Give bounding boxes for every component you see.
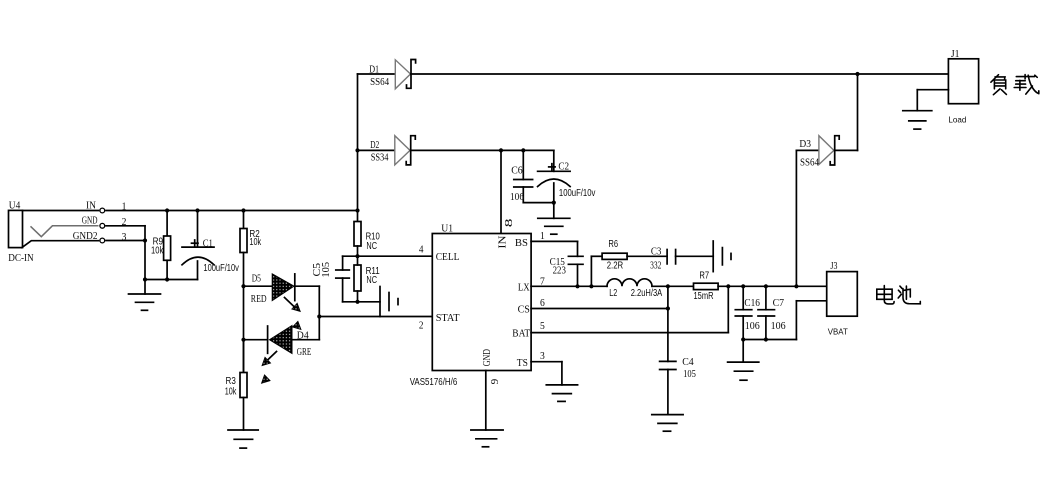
wire D2 cathode net: [411, 149, 554, 151]
node D2 branch: [355, 148, 359, 152]
wire L2 to R7: [652, 285, 694, 287]
resistor R2: [240, 211, 262, 287]
svg-text:C4: C4: [682, 356, 694, 368]
svg-text:GND: GND: [82, 214, 98, 226]
capacitor C1 100uF/10v: [182, 211, 239, 280]
node C6 riser: [521, 148, 525, 152]
diode D3 SS64: [796, 136, 857, 169]
wire TS pin to ground: [531, 362, 562, 385]
wire CS pin to C4 node: [531, 286, 668, 361]
diode D1 SS64: [358, 60, 416, 89]
svg-text:IN: IN: [497, 236, 509, 249]
svg-text:3: 3: [540, 350, 545, 362]
node C2 bottom: [552, 201, 556, 205]
wire C6/C2 bottom: [523, 202, 554, 204]
svg-text:105: 105: [320, 262, 332, 278]
svg-text:R3: R3: [226, 376, 237, 387]
svg-text:STAT: STAT: [436, 312, 460, 324]
svg-text:LX: LX: [518, 282, 530, 294]
D4 light arrows: [262, 352, 277, 384]
svg-text:L2: L2: [609, 288, 617, 299]
wire R7 to J3: [718, 285, 827, 287]
node IN/R9: [165, 208, 169, 212]
svg-text:J1: J1: [951, 48, 960, 60]
ground under C4: [652, 415, 683, 432]
svg-text:C6: C6: [511, 165, 523, 177]
resistor R6 2.2R: [591, 239, 667, 286]
svg-text:10k: 10k: [225, 386, 237, 397]
capacitor C5 105: [311, 256, 350, 302]
capacitor C4 105: [660, 356, 697, 414]
svg-text:100uF/10v: 100uF/10v: [559, 188, 596, 199]
svg-text:NC: NC: [366, 275, 377, 286]
node gnd bus R9: [165, 277, 169, 281]
svg-text:C3: C3: [651, 246, 662, 258]
wire GND net pin2 to corner: [106, 226, 145, 241]
wire BAT pin to R7 output: [531, 286, 728, 332]
ground rotated at R11 net: [380, 287, 398, 317]
svg-text:D5: D5: [252, 273, 262, 285]
wire GND net pin3: [106, 241, 145, 280]
capacitor C15 223: [550, 256, 583, 287]
node BAT riser: [726, 284, 730, 288]
node C7 top: [764, 284, 768, 288]
svg-text:C2: C2: [558, 160, 569, 172]
svg-text:BAT: BAT: [512, 328, 530, 340]
capacitor C2 100uF/10v: [538, 150, 596, 202]
wire U1 GND pin to ground: [485, 371, 487, 431]
svg-text:5: 5: [540, 320, 545, 332]
svg-text:DC-IN: DC-IN: [8, 252, 34, 264]
ground under C2: [538, 203, 570, 235]
wire top to J1: [858, 73, 949, 75]
capacitor C7 106: [758, 286, 786, 339]
svg-text:D3: D3: [799, 138, 811, 150]
capacitor C6 106: [510, 150, 533, 202]
svg-text:TS: TS: [517, 357, 528, 369]
label 电池: [877, 286, 921, 304]
svg-text:J3: J3: [830, 260, 837, 272]
svg-text:IN: IN: [86, 199, 96, 211]
svg-text:GND: GND: [481, 349, 493, 366]
node IN/R10/riser: [355, 208, 359, 212]
node C16 top: [741, 284, 745, 288]
IC U1 VAS5176: [410, 222, 531, 387]
wire CELL to U1 pin4: [343, 255, 432, 257]
svg-text:9: 9: [489, 378, 501, 384]
node C7 bottom: [764, 337, 768, 341]
wire R11/C5 bottom net: [343, 301, 380, 303]
LED D5 RED: [244, 273, 320, 305]
wire LED left rail: [243, 286, 245, 372]
svg-text:15mR: 15mR: [694, 291, 714, 302]
wire BS pin to C15: [531, 241, 577, 256]
U4 pin 2 GND with switch contact: [31, 214, 127, 236]
wire J1 pin2 to ground: [917, 90, 948, 111]
node IN/R2: [241, 208, 245, 212]
svg-text:D2: D2: [370, 139, 379, 151]
svg-text:R7: R7: [699, 270, 709, 281]
wire D5/D4 right rail to STAT: [318, 286, 320, 340]
inductor L2 2.2uH/3A: [607, 279, 662, 299]
ground under C16: [728, 340, 759, 381]
svg-text:U4: U4: [9, 200, 21, 212]
D5 light arrows: [285, 298, 302, 330]
wire STAT to U1 pin2: [319, 316, 431, 318]
svg-text:C7: C7: [773, 297, 785, 309]
connector U4 DC-IN: [8, 200, 34, 265]
svg-text:SS64: SS64: [800, 157, 819, 169]
resistor R7 15mR: [694, 270, 719, 302]
svg-text:SS64: SS64: [370, 76, 389, 88]
ground rotated at C3: [713, 241, 731, 272]
wire D1 cathode to top right: [411, 73, 858, 75]
node STAT junction: [317, 314, 321, 318]
node R11 bottom: [355, 300, 359, 304]
node C16 bottom: [741, 337, 745, 341]
svg-text:VBAT: VBAT: [828, 328, 848, 337]
node gnd bus left: [143, 277, 147, 281]
svg-text:R6: R6: [608, 239, 618, 250]
ground under DC-IN: [129, 280, 161, 311]
node CELL/R10/R11: [355, 254, 359, 258]
svg-text:8: 8: [503, 218, 515, 227]
ground under R3: [228, 430, 258, 448]
ground at J1: [903, 111, 932, 129]
connector J3 VBAT: [827, 260, 858, 337]
svg-text:GND2: GND2: [73, 230, 98, 242]
wire riser to D3: [795, 150, 797, 286]
svg-text:100uF/10v: 100uF/10v: [203, 263, 239, 274]
U4 pin 1 IN: [23, 199, 127, 213]
wire ground bus under R9/C1: [145, 279, 198, 281]
svg-text:223: 223: [553, 265, 567, 277]
node IN/C1: [195, 208, 199, 212]
resistor R10 NC: [354, 211, 380, 257]
svg-text:NC: NC: [366, 241, 377, 252]
ground under U1: [471, 430, 503, 447]
node D5 anode: [241, 284, 245, 288]
svg-text:4: 4: [419, 244, 424, 256]
svg-text:GRE: GRE: [297, 346, 312, 358]
svg-text:332: 332: [650, 259, 661, 271]
svg-text:Load: Load: [948, 116, 966, 125]
svg-text:RED: RED: [251, 293, 267, 305]
diode D2 SS34: [358, 136, 416, 165]
svg-text:CS: CS: [518, 303, 530, 315]
svg-text:10k: 10k: [249, 237, 262, 248]
node R6 riser: [589, 284, 593, 288]
svg-text:SS34: SS34: [371, 152, 389, 164]
svg-text:2: 2: [419, 319, 424, 331]
LED D4 GRE: [244, 326, 320, 359]
svg-text:106: 106: [745, 320, 760, 332]
node CS junction: [666, 306, 670, 310]
U4 pin 3 GND2: [22, 230, 127, 248]
svg-text:1: 1: [540, 230, 545, 242]
svg-text:D4: D4: [297, 329, 309, 341]
wire IN net from pin1 to R10 junction: [106, 210, 358, 212]
wire U1 IN pin riser: [500, 150, 502, 233]
svg-text:VAS5176/H/6: VAS5176/H/6: [410, 377, 458, 388]
svg-text:C16: C16: [744, 297, 760, 309]
svg-text:2.2R: 2.2R: [607, 260, 624, 271]
capacitor C3 332: [650, 246, 713, 272]
label 负载: [991, 75, 1039, 95]
node pin3/pin2 junction: [143, 238, 147, 242]
wire LX line: [531, 285, 607, 287]
node U1 IN riser: [499, 148, 503, 152]
node C15/LX: [575, 284, 579, 288]
node D4 cathode: [241, 338, 245, 342]
wire J3 pin2 to cap bottom bus: [796, 301, 826, 340]
wire cap bottom bus: [743, 339, 796, 341]
node L2/R7/C4: [666, 284, 670, 288]
svg-text:10k: 10k: [151, 246, 164, 257]
wire D3 cathode riser: [857, 74, 859, 150]
svg-text:105: 105: [683, 368, 696, 380]
svg-text:D1: D1: [369, 64, 379, 76]
svg-text:106: 106: [510, 191, 524, 203]
resistor R9: [151, 211, 171, 280]
svg-text:CELL: CELL: [436, 251, 460, 263]
resistor R3: [225, 340, 247, 430]
node top wire/J1: [855, 72, 859, 76]
connector J1 Load: [948, 48, 978, 125]
svg-text:2.2uH/3A: 2.2uH/3A: [631, 288, 663, 299]
svg-text:106: 106: [771, 320, 786, 332]
svg-text:BS: BS: [515, 237, 528, 249]
resistor R11 NC: [354, 256, 380, 302]
svg-text:6: 6: [540, 297, 545, 309]
capacitor C16 106: [735, 286, 760, 339]
svg-text:C1: C1: [203, 238, 213, 250]
wire riser IN to D1/D2: [357, 74, 359, 211]
svg-text:U1: U1: [441, 222, 453, 234]
node D3/J3 riser: [794, 284, 798, 288]
ground at TS: [546, 385, 577, 402]
